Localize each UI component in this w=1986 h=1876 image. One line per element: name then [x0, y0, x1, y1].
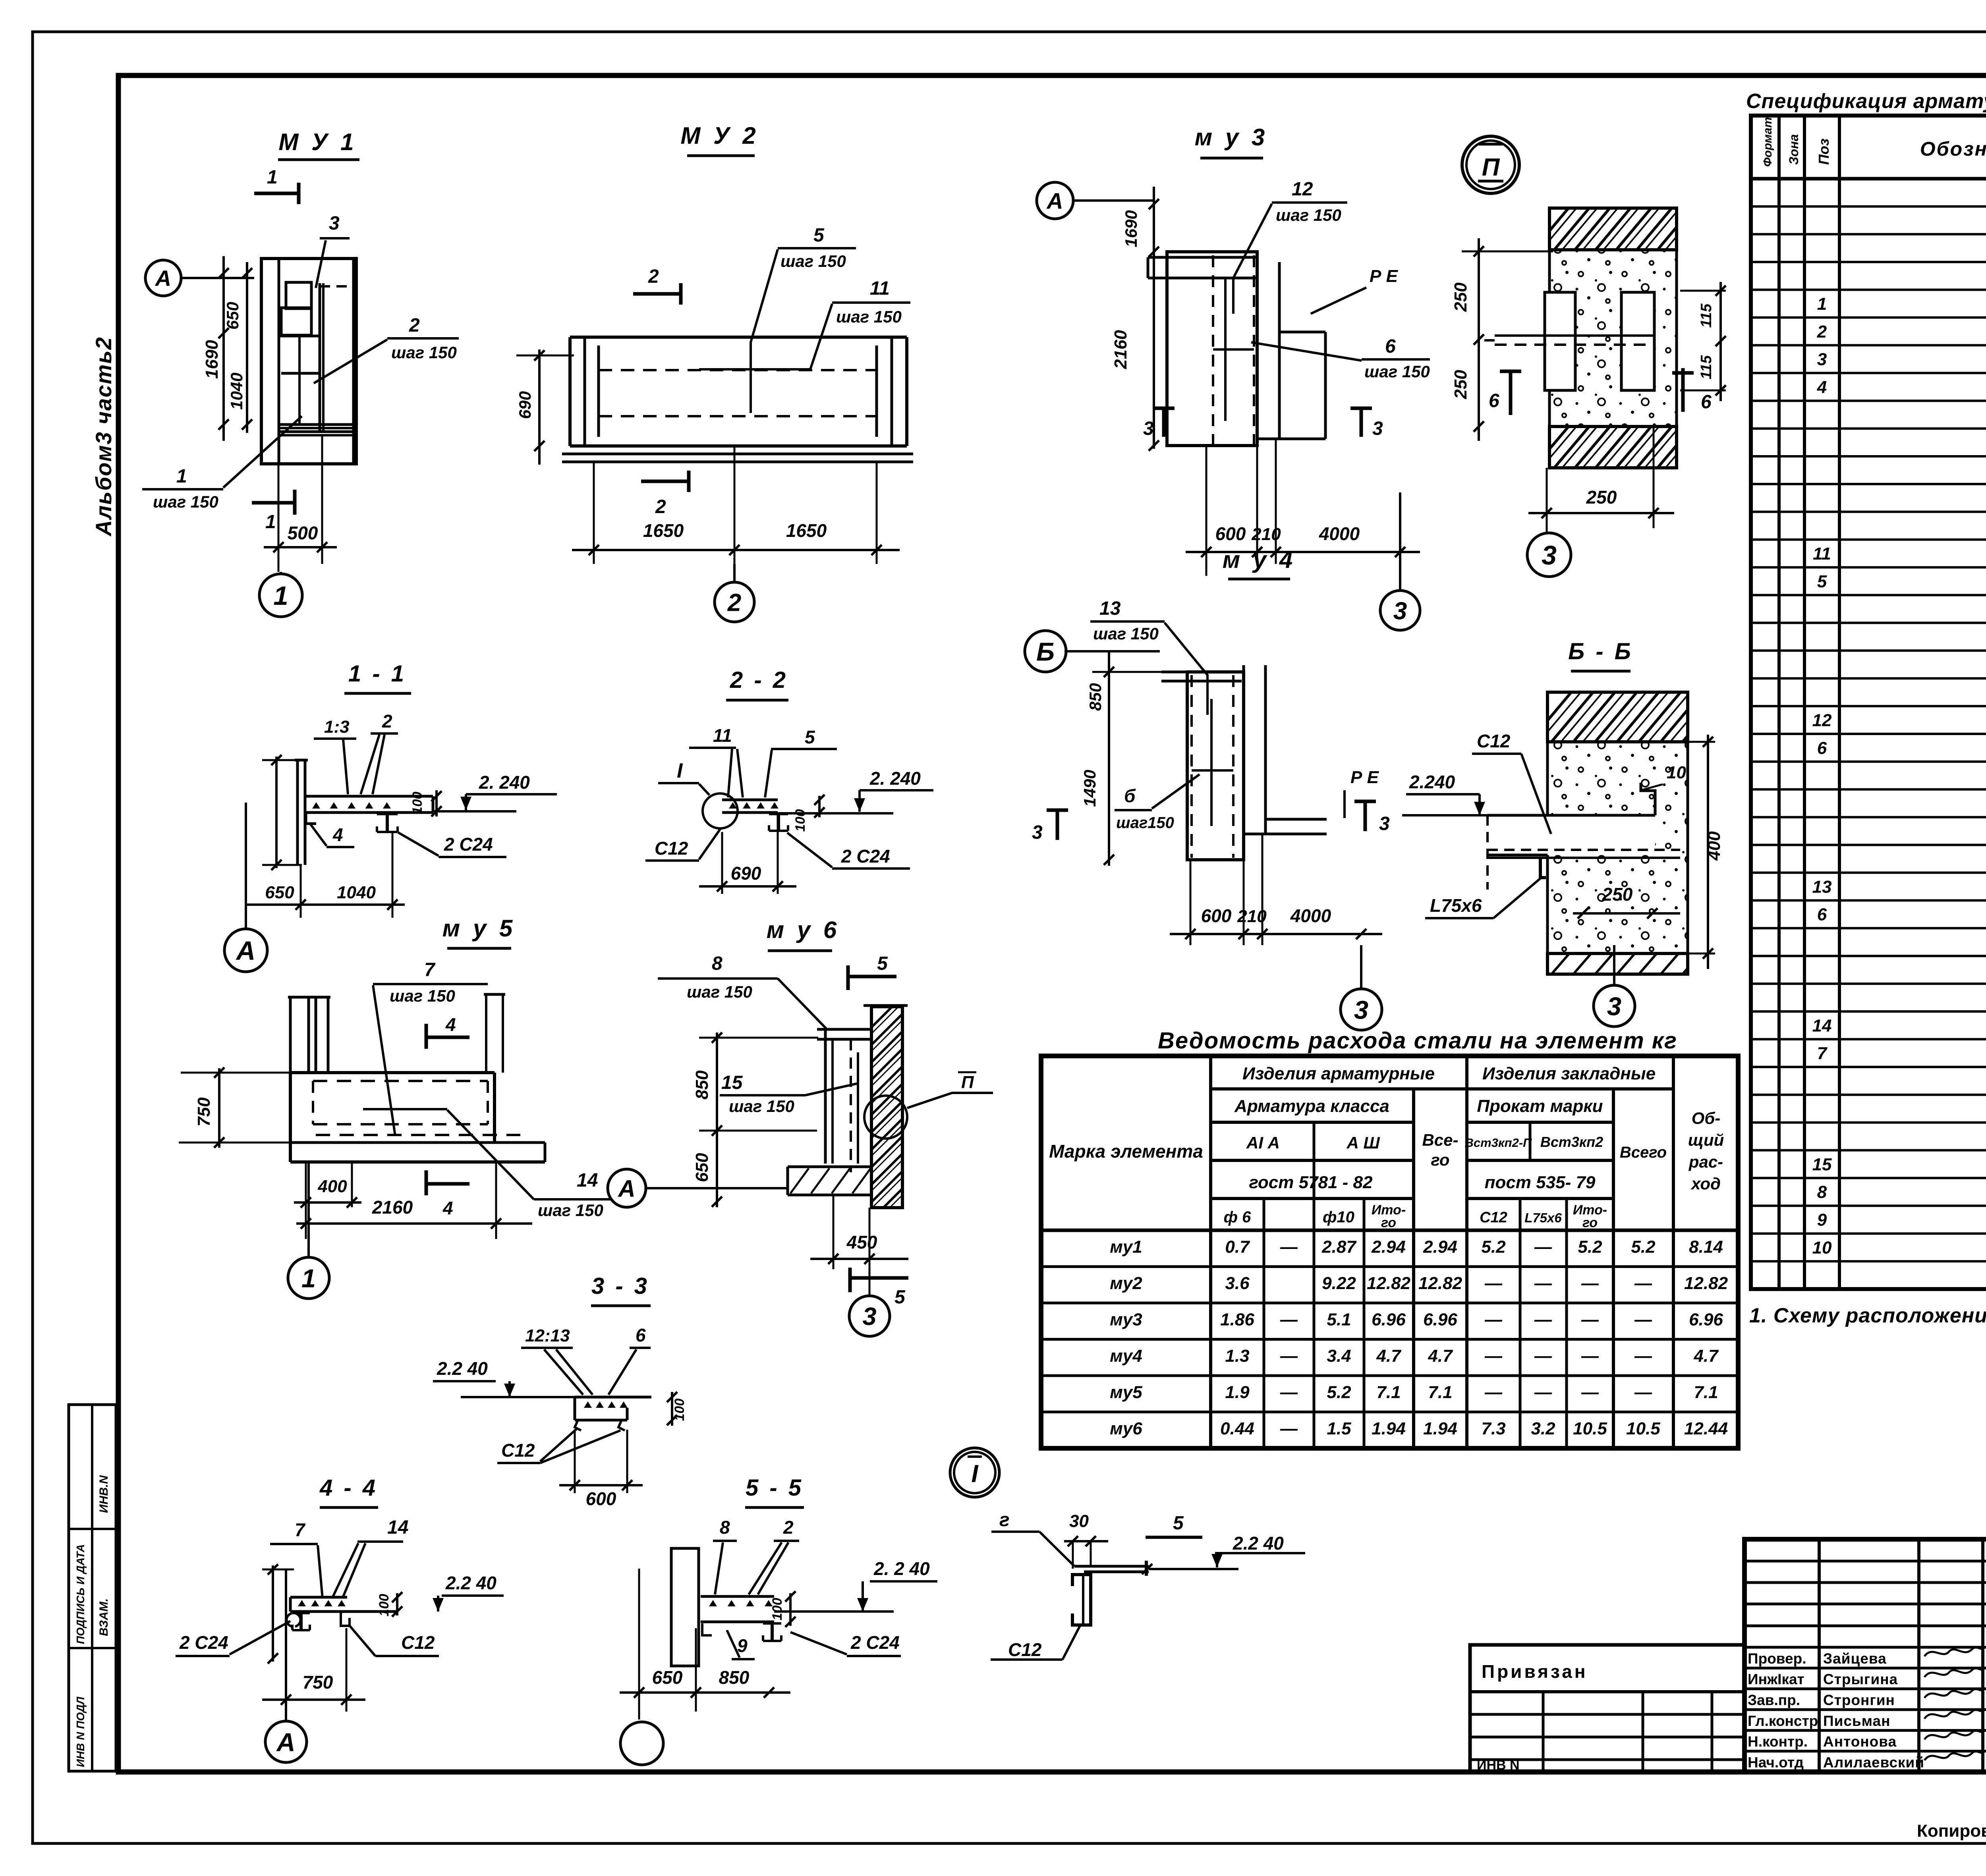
- svg-text:5: 5: [1173, 1513, 1184, 1534]
- view МУ6 section 5 mark bottom: [848, 1268, 852, 1292]
- svg-text:—: —: [1581, 1346, 1599, 1366]
- svg-text:100: 100: [793, 809, 808, 832]
- svg-text:2. 240: 2. 240: [479, 772, 530, 793]
- svg-text:Нач.отд: Нач.отд: [1748, 1754, 1804, 1770]
- view МУ2 section mark 2 top: [633, 292, 681, 296]
- view МУ6 section 5 mark top: [846, 965, 850, 990]
- svg-text:Поз: Поз: [1816, 139, 1832, 165]
- svg-text:щий: щий: [1688, 1131, 1724, 1149]
- svg-text:—: —: [1634, 1346, 1652, 1366]
- svg-text:6.96: 6.96: [1689, 1310, 1723, 1330]
- svg-text:100: 100: [672, 1399, 687, 1421]
- svg-text:12.82: 12.82: [1418, 1274, 1462, 1293]
- svg-text:850: 850: [719, 1667, 750, 1688]
- svg-text:С12: С12: [1480, 1209, 1507, 1226]
- svg-text:8: 8: [720, 1517, 730, 1538]
- svg-text:2 С24: 2 С24: [179, 1632, 228, 1653]
- svg-text:М У 1: М У 1: [278, 129, 357, 155]
- svg-text:1: 1: [1817, 294, 1827, 314]
- svg-text:6.96: 6.96: [1423, 1310, 1457, 1330]
- svg-text:Все-: Все-: [1422, 1131, 1458, 1149]
- svg-text:6: 6: [636, 1325, 646, 1345]
- specification table grid: [1751, 116, 1986, 1289]
- svg-text:П: П: [961, 1073, 974, 1092]
- section 2-2 level line: [778, 812, 893, 814]
- svg-text:5.2: 5.2: [1481, 1237, 1506, 1257]
- svg-text:—: —: [1484, 1274, 1503, 1293]
- svg-text:7.1: 7.1: [1694, 1383, 1718, 1402]
- svg-text:А: А: [276, 1727, 296, 1756]
- svg-text:му5: му5: [1110, 1383, 1142, 1402]
- svg-text:—: —: [1280, 1310, 1298, 1330]
- svg-text:3: 3: [1607, 992, 1621, 1021]
- view МУ3 left dims: [1153, 187, 1155, 449]
- svg-text:1650: 1650: [643, 520, 684, 541]
- svg-text:14: 14: [577, 1170, 598, 1191]
- view МУ1 left dims: [222, 256, 225, 441]
- detail Г floor lines: [1074, 1565, 1149, 1568]
- svg-text:1040: 1040: [227, 372, 246, 409]
- svg-text:м у 4: м у 4: [1223, 546, 1296, 573]
- section 2-2 steel profile: [769, 813, 788, 815]
- svg-text:5.2: 5.2: [1631, 1237, 1656, 1257]
- svg-text:1: 1: [267, 167, 278, 188]
- svg-text:2 - 2: 2 - 2: [730, 667, 788, 693]
- svg-text:2: 2: [655, 496, 666, 517]
- svg-text:ф10: ф10: [1323, 1208, 1354, 1226]
- section 5-5 slab: [701, 1595, 774, 1598]
- detail Г channel С12 profile: [1072, 1575, 1091, 1625]
- svg-text:15: 15: [1812, 1155, 1832, 1174]
- svg-text:12.82: 12.82: [1684, 1274, 1728, 1293]
- svg-text:690: 690: [731, 863, 761, 884]
- svg-text:Зона: Зона: [1787, 134, 1801, 165]
- svg-text:5: 5: [877, 953, 888, 974]
- svg-text:3 - 3: 3 - 3: [591, 1273, 649, 1299]
- svg-text:9: 9: [1817, 1210, 1827, 1230]
- view МУ4 body: [1161, 671, 1242, 674]
- svg-text:1.9: 1.9: [1225, 1383, 1250, 1402]
- svg-text:L75х6: L75х6: [1524, 1210, 1562, 1225]
- svg-text:12: 12: [1812, 710, 1832, 730]
- section 4-4 left dim: [272, 1565, 274, 1662]
- section Б-Б angle L75x6: [1540, 858, 1546, 878]
- svg-text:го: го: [1381, 1215, 1396, 1230]
- svg-text:9.22: 9.22: [1322, 1274, 1356, 1293]
- svg-text:850: 850: [692, 1070, 712, 1100]
- svg-text:м у 6: м у 6: [767, 917, 840, 943]
- view МУ1 axis circle А: [145, 260, 181, 296]
- svg-text:7: 7: [295, 1519, 306, 1540]
- svg-text:400: 400: [317, 1177, 347, 1196]
- svg-text:2160: 2160: [1111, 330, 1130, 369]
- svg-text:—: —: [1534, 1310, 1552, 1330]
- svg-text:10.5: 10.5: [1626, 1419, 1660, 1438]
- view МУ4 axis circle 3: [1341, 989, 1382, 1030]
- svg-text:Вст3кп2-П: Вст3кп2-П: [1465, 1136, 1532, 1150]
- svg-text:1490: 1490: [1080, 770, 1099, 807]
- svg-text:6.96: 6.96: [1372, 1310, 1406, 1330]
- svg-text:Привязан: Привязан: [1482, 1661, 1588, 1682]
- section 1-1 steel profiles: [377, 813, 398, 815]
- section 5-5 wall: [671, 1548, 699, 1666]
- svg-text:210: 210: [1251, 525, 1281, 544]
- section Б-Б monolithic slab: [1488, 815, 1655, 855]
- svg-text:С12: С12: [401, 1632, 435, 1653]
- svg-text:7.3: 7.3: [1481, 1419, 1505, 1438]
- svg-text:2: 2: [648, 266, 659, 287]
- view МУ3 body: [1148, 256, 1257, 259]
- section Б-Б dim 250: [1573, 912, 1680, 915]
- svg-text:шаг 150: шаг 150: [780, 252, 846, 270]
- svg-text:м у 3: м у 3: [1195, 124, 1268, 151]
- section 4-4 dim 100: [396, 1593, 398, 1615]
- svg-text:1: 1: [273, 581, 288, 611]
- svg-text:С12: С12: [1477, 731, 1511, 751]
- view МУ4 bottom dims 600 210 4000: [1190, 860, 1192, 945]
- view МУ3 axis circle А: [1037, 182, 1073, 219]
- svg-text:1.3: 1.3: [1225, 1346, 1249, 1366]
- svg-text:4: 4: [442, 1198, 453, 1218]
- svg-text:115: 115: [1698, 355, 1715, 379]
- view МУ5 section 4 marks: [425, 1024, 428, 1049]
- svg-text:ПОДПИСЬ И ДАТА: ПОДПИСЬ И ДАТА: [74, 1544, 87, 1644]
- svg-text:8: 8: [712, 953, 723, 974]
- svg-text:0.44: 0.44: [1220, 1419, 1254, 1438]
- svg-text:8.14: 8.14: [1689, 1237, 1723, 1257]
- svg-text:Об-: Об-: [1692, 1109, 1721, 1127]
- svg-text:11: 11: [1813, 544, 1831, 564]
- svg-text:шаг 150: шаг 150: [390, 986, 455, 1005]
- svg-text:600: 600: [1215, 523, 1246, 544]
- svg-text:2.94: 2.94: [1371, 1237, 1406, 1257]
- svg-text:1690: 1690: [1122, 210, 1140, 247]
- svg-text:13: 13: [1812, 877, 1832, 897]
- svg-text:Альбом3 часть2: Альбом3 часть2: [91, 336, 116, 537]
- svg-text:15: 15: [721, 1072, 743, 1093]
- detail II designation circle: [1462, 136, 1519, 193]
- svg-text:Зав.пр.: Зав.пр.: [1748, 1692, 1800, 1708]
- svg-text:7.1: 7.1: [1376, 1383, 1401, 1402]
- svg-text:ИНВ N: ИНВ N: [1477, 1758, 1520, 1773]
- svg-text:Алилаевский: Алилаевский: [1823, 1754, 1924, 1770]
- svg-text:2 С24: 2 С24: [850, 1632, 900, 1653]
- svg-text:—: —: [1534, 1346, 1552, 1366]
- svg-text:14: 14: [1812, 1016, 1832, 1035]
- detail II concrete area: [1549, 250, 1677, 427]
- svg-text:—: —: [1634, 1310, 1652, 1330]
- svg-text:1.94: 1.94: [1423, 1419, 1457, 1438]
- section 2-2 slab: [722, 799, 778, 801]
- svg-text:—: —: [1280, 1237, 1298, 1257]
- svg-text:4000: 4000: [1290, 905, 1331, 926]
- view МУ5 axis circle 1: [288, 1257, 329, 1299]
- svg-text:ход: ход: [1690, 1174, 1721, 1193]
- detail II anchor bar: [1495, 334, 1654, 337]
- svg-text:100: 100: [410, 792, 425, 814]
- svg-text:1 - 1: 1 - 1: [348, 661, 406, 687]
- svg-text:Р Е: Р Е: [1350, 768, 1379, 787]
- svg-text:—: —: [1484, 1310, 1503, 1330]
- svg-text:500: 500: [288, 523, 318, 543]
- svg-text:3.6: 3.6: [1225, 1274, 1250, 1293]
- view МУ4 left dims: [1108, 651, 1110, 866]
- svg-text:Всего: Всего: [1620, 1144, 1667, 1161]
- section 5-5 steel profiles: [702, 1623, 712, 1635]
- svg-text:3: 3: [1817, 350, 1827, 369]
- section 5-5 bottom dims 650 850: [620, 1691, 790, 1694]
- section 1-1 wall: [296, 760, 299, 865]
- svg-text:ф 6: ф 6: [1224, 1208, 1252, 1226]
- svg-text:100: 100: [770, 1598, 785, 1621]
- svg-text:6: 6: [1385, 336, 1396, 357]
- section 2-2 detail I circle: [703, 793, 738, 828]
- view МУ2 left dim 690: [538, 349, 541, 465]
- svg-text:3: 3: [1542, 540, 1557, 570]
- svg-text:5 - 5: 5 - 5: [746, 1475, 804, 1501]
- svg-text:7: 7: [424, 959, 436, 980]
- svg-text:3.2: 3.2: [1531, 1419, 1555, 1438]
- svg-text:1.86: 1.86: [1220, 1310, 1254, 1330]
- svg-text:М У 2: М У 2: [680, 122, 759, 149]
- svg-text:6: 6: [1817, 738, 1827, 758]
- section 5-5 dim 100: [789, 1593, 792, 1626]
- svg-text:2. 2 40: 2. 2 40: [873, 1558, 930, 1579]
- svg-text:2.240: 2.240: [1409, 772, 1455, 792]
- view МУ5 top right extension: [485, 994, 487, 1073]
- svg-text:690: 690: [516, 391, 534, 419]
- section Б-Б right dim 400: [1707, 735, 1709, 969]
- svg-text:4.7: 4.7: [1376, 1346, 1402, 1366]
- svg-text:6: 6: [1817, 905, 1827, 924]
- svg-text:му1: му1: [1110, 1237, 1142, 1257]
- section 4-4 dim 750: [262, 1698, 365, 1701]
- svg-text:1. Схему расположения му1÷м: 1. Схему расположения му1÷м6 см лист кж …: [1749, 1304, 1986, 1327]
- svg-text:гост 5781 - 82: гост 5781 - 82: [1249, 1173, 1373, 1192]
- view МУ6 wall hatched: [871, 1007, 902, 1208]
- view МУ6 bottom slab part: [788, 1166, 871, 1168]
- svg-text:му4: му4: [1110, 1346, 1142, 1366]
- svg-text:4: 4: [445, 1014, 456, 1035]
- svg-text:L75х6: L75х6: [1430, 895, 1482, 916]
- detail II wall block bottom hatch: [1549, 427, 1677, 468]
- svg-text:—: —: [1534, 1237, 1552, 1257]
- svg-text:3: 3: [1393, 597, 1407, 625]
- svg-text:му2: му2: [1110, 1274, 1142, 1293]
- svg-text:2: 2: [783, 1517, 794, 1538]
- svg-text:—: —: [1634, 1274, 1652, 1293]
- svg-text:12: 12: [1292, 179, 1313, 200]
- svg-text:650: 650: [652, 1667, 683, 1688]
- svg-text:5.2: 5.2: [1327, 1383, 1351, 1402]
- svg-text:11: 11: [870, 278, 890, 299]
- svg-text:б: б: [1124, 786, 1136, 806]
- svg-text:12.44: 12.44: [1684, 1419, 1728, 1438]
- steel usage table grid: [1041, 1056, 1738, 1448]
- svg-text:14: 14: [387, 1517, 408, 1538]
- section 3-3 dim 600: [574, 1430, 576, 1493]
- svg-text:4: 4: [1817, 378, 1827, 397]
- svg-text:—: —: [1484, 1346, 1503, 1366]
- svg-text:4.7: 4.7: [1693, 1346, 1719, 1366]
- svg-text:5: 5: [894, 1287, 906, 1308]
- svg-text:А: А: [617, 1175, 635, 1202]
- detail II left dims 250 250: [1478, 238, 1480, 441]
- section 4-4 axis circle А: [265, 1721, 307, 1762]
- svg-text:7: 7: [1817, 1044, 1828, 1063]
- svg-text:шаг 150: шаг 150: [1093, 624, 1159, 643]
- svg-text:го: го: [1582, 1215, 1598, 1230]
- svg-text:4 - 4: 4 - 4: [319, 1475, 378, 1501]
- svg-text:13: 13: [1099, 598, 1121, 619]
- svg-text:шаг 150: шаг 150: [538, 1201, 603, 1220]
- svg-text:3: 3: [862, 1303, 876, 1331]
- svg-text:Стронгин: Стронгин: [1823, 1692, 1895, 1708]
- svg-text:250: 250: [1586, 487, 1617, 508]
- svg-text:2 С24: 2 С24: [841, 846, 890, 867]
- detail II bottom dim 250: [1546, 468, 1548, 532]
- svg-text:шаг150: шаг150: [1116, 814, 1174, 832]
- svg-text:1.5: 1.5: [1327, 1419, 1351, 1438]
- svg-text:А: А: [236, 936, 255, 966]
- svg-text:рас-: рас-: [1688, 1152, 1723, 1171]
- svg-text:Вст3кп2: Вст3кп2: [1540, 1134, 1603, 1150]
- svg-text:—: —: [1634, 1383, 1652, 1402]
- section 3-3 dim 100: [671, 1392, 673, 1426]
- svg-text:1: 1: [176, 466, 187, 487]
- svg-text:Обозначение: Обозначение: [1920, 138, 1986, 160]
- view МУ6 axis circle 3: [849, 1296, 890, 1336]
- svg-text:3: 3: [329, 213, 340, 234]
- view МУ1 body: [261, 259, 356, 464]
- section 1-1 dim 100: [435, 790, 438, 816]
- svg-text:А: А: [155, 266, 171, 291]
- svg-text:100: 100: [377, 1594, 392, 1617]
- view МУ3 axis circle 3: [1380, 591, 1420, 630]
- section 1-1 left dim: [275, 757, 278, 868]
- svg-text:2.2 40: 2.2 40: [445, 1573, 496, 1593]
- svg-text:—: —: [1280, 1419, 1298, 1438]
- svg-text:5.1: 5.1: [1327, 1310, 1351, 1330]
- svg-text:600: 600: [586, 1488, 616, 1509]
- svg-text:Ведомость расхода стали на: Ведомость расхода стали на элемент кг: [1158, 1028, 1677, 1054]
- view МУ6 axis circle А: [608, 1169, 646, 1207]
- svg-text:450: 450: [846, 1232, 877, 1253]
- svg-text:3: 3: [1379, 813, 1390, 834]
- svg-text:Прокат марки: Прокат марки: [1477, 1096, 1603, 1116]
- detail II right dims 115 115: [1719, 282, 1722, 401]
- svg-text:му6: му6: [1110, 1419, 1142, 1438]
- view МУ1 section mark 1 top: [254, 192, 299, 195]
- svg-text:250: 250: [1602, 884, 1633, 905]
- svg-text:АI А: АI А: [1246, 1133, 1280, 1152]
- svg-text:му3: му3: [1110, 1310, 1142, 1330]
- section 4-4 slab: [290, 1596, 347, 1599]
- svg-text:Марка элемента: Марка элемента: [1049, 1141, 1203, 1162]
- svg-text:10: 10: [1667, 763, 1686, 782]
- svg-text:—: —: [1534, 1383, 1552, 1402]
- section 1-1 axis circle А: [224, 929, 267, 972]
- svg-text:210: 210: [1237, 907, 1267, 926]
- svg-text:5: 5: [1817, 572, 1827, 591]
- view МУ5 left dim 750: [218, 1068, 220, 1148]
- svg-text:С12: С12: [655, 838, 688, 859]
- svg-text:3: 3: [1354, 995, 1368, 1024]
- svg-text:Н.контр.: Н.контр.: [1748, 1733, 1808, 1750]
- svg-text:3: 3: [1372, 418, 1383, 439]
- view МУ2 axis circle 2: [715, 582, 754, 622]
- svg-text:600: 600: [1201, 905, 1232, 926]
- svg-text:—: —: [1534, 1274, 1552, 1293]
- svg-text:А Ш: А Ш: [1346, 1133, 1380, 1152]
- svg-text:750: 750: [303, 1672, 333, 1693]
- svg-text:пост 535- 79: пост 535- 79: [1485, 1173, 1596, 1192]
- section Б-Б axis circle 3: [1594, 985, 1635, 1027]
- svg-text:шаг 150: шаг 150: [687, 982, 752, 1001]
- view МУ1 dim 500: [278, 464, 280, 572]
- svg-text:Письман: Письман: [1823, 1713, 1890, 1729]
- svg-text:0.7: 0.7: [1225, 1237, 1250, 1257]
- svg-text:12:13: 12:13: [525, 1326, 570, 1345]
- svg-text:Зайцева: Зайцева: [1823, 1650, 1887, 1667]
- detail Г section 5 mark: [1145, 1561, 1148, 1576]
- view МУ3 bottom dims 600 210 4000: [1206, 446, 1207, 576]
- svg-text:7.1: 7.1: [1428, 1383, 1452, 1402]
- svg-text:Формат: Формат: [1761, 117, 1774, 167]
- view МУ2 slab body: [570, 336, 907, 339]
- left margin stamp strip: [69, 1405, 116, 1771]
- detail I designation circle: [950, 1448, 999, 1497]
- svg-text:ИНВ.N: ИНВ.N: [97, 1475, 110, 1513]
- svg-text:3: 3: [1143, 418, 1154, 439]
- view МУ6 left dims 850 650: [716, 1033, 718, 1207]
- svg-text:шаг 150: шаг 150: [836, 307, 902, 326]
- view МУ4 axis circle Б: [1025, 631, 1066, 672]
- view МУ5 posts: [289, 997, 292, 1073]
- svg-text:650: 650: [223, 302, 242, 330]
- svg-text:1:3: 1:3: [324, 717, 350, 737]
- svg-text:м у 5: м у 5: [442, 915, 516, 942]
- view МУ1 section mark 1 bottom: [252, 501, 293, 505]
- svg-text:115: 115: [1698, 303, 1715, 328]
- view МУ6 top slab part: [817, 1028, 871, 1031]
- svg-text:650: 650: [265, 883, 294, 902]
- section Б-Б wall block: [1547, 692, 1688, 742]
- svg-text:2 С24: 2 С24: [444, 834, 493, 855]
- svg-text:шаг 150: шаг 150: [1364, 362, 1430, 381]
- svg-text:5: 5: [813, 225, 825, 246]
- section 2-2 dim 100: [818, 796, 821, 817]
- svg-text:10.5: 10.5: [1573, 1419, 1607, 1438]
- svg-text:11: 11: [713, 725, 732, 746]
- svg-text:—: —: [1581, 1274, 1599, 1293]
- svg-text:Копировала Родлевская: Копировала Родлевская: [1917, 1821, 1986, 1841]
- svg-text:Изделия закладные: Изделия закладные: [1482, 1064, 1656, 1083]
- detail II slots: [1545, 292, 1575, 390]
- svg-text:Антонова: Антонова: [1823, 1733, 1897, 1750]
- section 3-3 slab: [575, 1396, 651, 1399]
- view МУ1 axis circle 1: [259, 574, 302, 617]
- svg-text:1650: 1650: [786, 520, 827, 541]
- svg-text:Провер.: Провер.: [1748, 1650, 1806, 1667]
- svg-text:4.7: 4.7: [1428, 1346, 1453, 1366]
- privyazan sub-table: [1470, 1645, 1745, 1772]
- svg-text:6: 6: [1701, 392, 1712, 413]
- svg-text:шаг 150: шаг 150: [391, 343, 457, 362]
- view МУ5 slab body: [290, 1071, 495, 1074]
- section 1-1 slab: [305, 795, 433, 798]
- svg-text:Спецификация арматурных изде: Спецификация арматурных изделий монолитн…: [1746, 90, 1986, 113]
